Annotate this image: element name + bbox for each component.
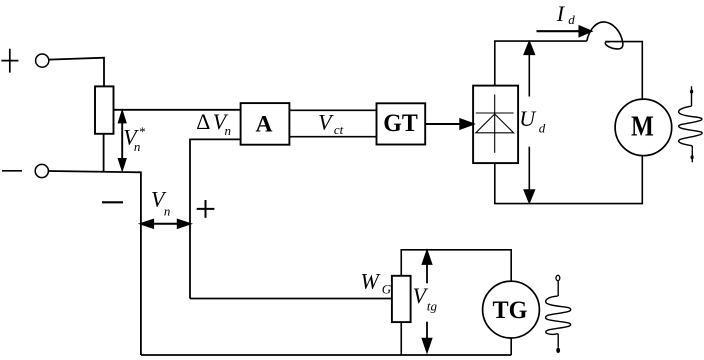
amplifier block A [241, 103, 290, 145]
thyristor rectifier block V [473, 86, 518, 164]
plus sign of Vn [197, 200, 215, 218]
wire from minus terminal [49, 171, 141, 355]
wire rectifier top to motor with loop gap [495, 22, 643, 204]
svg-text:Δ: Δ [196, 109, 210, 134]
arrow Vn double arrow horizontal [141, 220, 190, 228]
plus terminal sign [1, 49, 18, 73]
svg-text:M: M [631, 111, 654, 142]
wire potentiometer tap to A [114, 109, 241, 111]
minus input terminal circle [35, 164, 48, 177]
TG field winding end dots [556, 275, 560, 353]
svg-text:d: d [539, 120, 546, 135]
wire feedback elbow to A lower input [190, 139, 241, 298]
svg-text:GT: GT [383, 110, 418, 137]
wire feedback to WG [190, 298, 392, 300]
arrow GT to rectifier [425, 119, 473, 128]
wire TG bottom lead [510, 338, 512, 355]
trigger block GT [377, 103, 426, 144]
arrow Id [537, 26, 591, 36]
plus input terminal circle [36, 54, 49, 67]
smoothing reactor loop [587, 22, 623, 49]
rectifier diode symbol [494, 94, 496, 152]
wire WG bottom lead [400, 322, 402, 355]
svg-text:G: G [382, 281, 392, 296]
wire loop to motor [605, 42, 642, 100]
svg-text:A: A [256, 112, 273, 138]
wire from plus terminal [49, 58, 104, 87]
svg-text:*: * [139, 124, 146, 139]
svg-text:TG: TG [493, 297, 528, 324]
motor field winding coil [679, 86, 703, 162]
bottom return wire [141, 354, 511, 356]
wire A to GT lower [289, 136, 376, 138]
wire A to GT upper [289, 109, 376, 111]
wire motor bottom to rectifier bottom [495, 156, 643, 204]
minus terminal sign [2, 170, 22, 172]
minus sign of Vn [102, 201, 123, 203]
svg-text:ct: ct [334, 122, 344, 137]
tachogenerator TG [483, 281, 540, 338]
wire potentiometer bottom lead [103, 134, 105, 172]
arrow Vn* double arrow [119, 112, 126, 170]
svg-text:n: n [225, 123, 232, 138]
svg-text:d: d [568, 12, 575, 27]
svg-text:tg: tg [427, 299, 438, 314]
motor field winding end dots [690, 90, 694, 160]
wire WG top to TG top [401, 250, 511, 281]
svg-text:n: n [134, 139, 141, 154]
svg-text:U: U [519, 106, 537, 131]
motor M [615, 99, 672, 156]
arrow Vtg double arrow [423, 251, 432, 352]
potentiometer RP [95, 86, 114, 133]
svg-text:W: W [361, 268, 381, 293]
TG field winding coil [546, 281, 571, 348]
arrow Ud double arrow [524, 42, 534, 203]
feedback potentiometer WG [392, 276, 411, 322]
svg-text:n: n [164, 204, 171, 219]
